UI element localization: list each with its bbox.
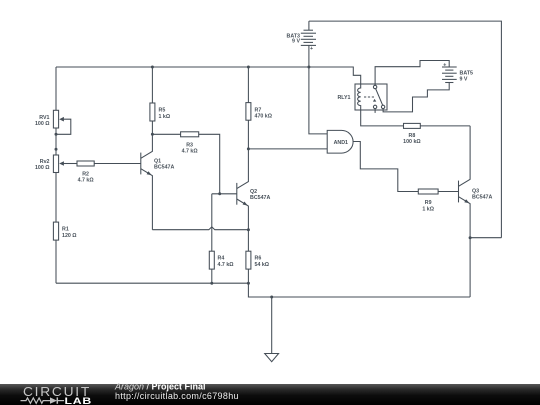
svg-text:RLY1: RLY1 xyxy=(337,95,350,101)
resistor R1 xyxy=(53,222,77,240)
node Q1/Q2 emitter R6 junction xyxy=(247,228,250,231)
wire ground stub xyxy=(271,297,273,354)
wire left column top (rail to RV1) xyxy=(55,67,57,110)
wire Q3 emitter to bottom rail xyxy=(469,238,471,297)
node BAT3 on rail xyxy=(307,66,310,69)
svg-text:1 kΩ: 1 kΩ xyxy=(159,114,171,120)
node Q1 collector / R5 junction xyxy=(151,133,154,136)
svg-text:http://circuitlab.com/c6798hu: http://circuitlab.com/c6798hu xyxy=(115,391,239,401)
svg-text:4.7 kΩ: 4.7 kΩ xyxy=(182,149,199,155)
svg-text:100 Ω: 100 Ω xyxy=(35,121,50,127)
resistor R9 xyxy=(418,189,438,213)
node R7 top on rail xyxy=(247,66,250,69)
wire Q2 collector to AND1 lower input xyxy=(248,148,327,150)
svg-text:1 kΩ: 1 kΩ xyxy=(422,207,434,213)
wire bottom ground rail xyxy=(56,283,470,297)
wire relay top contact to BAT5 plus xyxy=(375,61,449,86)
svg-text:4.7 kΩ: 4.7 kΩ xyxy=(218,262,235,268)
wire BAT3 rail to AND1 upper input xyxy=(309,67,327,134)
resistor R4 xyxy=(209,194,234,283)
wire BAT5 minus to relay NO contact xyxy=(383,83,449,112)
svg-text:+: + xyxy=(310,46,313,52)
svg-text:120 Ω: 120 Ω xyxy=(62,233,77,239)
svg-text:R4: R4 xyxy=(218,256,225,262)
resistor R3 xyxy=(181,132,199,155)
node R5 top on rail xyxy=(151,66,154,69)
resistor R5 xyxy=(150,67,171,134)
node ground stub xyxy=(270,296,273,299)
svg-text:R6: R6 xyxy=(255,256,262,262)
svg-text:9 V: 9 V xyxy=(460,76,468,82)
transistor Q1 xyxy=(141,134,175,229)
svg-text:+: + xyxy=(443,63,446,69)
transistor Q3 xyxy=(459,126,493,238)
svg-text:LAB: LAB xyxy=(65,396,93,405)
wire RV1 to RV2 xyxy=(55,128,57,155)
potentiometer RV2 xyxy=(35,155,77,173)
svg-text:BC547A: BC547A xyxy=(472,195,492,201)
wire R8 to Q3 collector xyxy=(420,125,470,127)
wire R5 junction to R3 xyxy=(152,133,180,135)
transistor Q2 xyxy=(237,120,271,230)
battery BAT5 xyxy=(442,63,473,83)
wire AND1 output to R9 xyxy=(353,142,418,192)
ground xyxy=(265,354,279,362)
svg-text:BC547A: BC547A xyxy=(250,195,270,201)
resistor R2 xyxy=(77,161,94,184)
node Q3 emitter junction xyxy=(469,236,472,239)
potentiometer RV1 xyxy=(35,110,71,134)
node R4 bottom xyxy=(210,282,213,285)
wire Q2 base xyxy=(212,193,237,195)
resistor R8 xyxy=(403,123,421,145)
svg-text:4.7 kΩ: 4.7 kΩ xyxy=(78,178,95,184)
battery BAT3 xyxy=(287,21,316,67)
node R3 / Q2 base junction xyxy=(218,192,221,195)
wire R2 to Q1 base xyxy=(94,163,141,165)
wire R3 to Q2 base node xyxy=(199,134,220,194)
wire R1 to bottom rail xyxy=(55,240,57,283)
svg-text:AND1: AND1 xyxy=(334,140,348,146)
node R6 bottom xyxy=(247,282,250,285)
svg-text:100 Ω: 100 Ω xyxy=(35,165,50,171)
svg-text:100 kΩ: 100 kΩ xyxy=(403,139,421,145)
wire BAT3 top to right column xyxy=(309,21,502,238)
resistor R6 xyxy=(246,230,270,284)
AND gate AND1 xyxy=(327,130,353,153)
svg-text:R5: R5 xyxy=(159,108,166,114)
wire Q3 emitter to right column xyxy=(470,237,501,239)
wire relay coil bottom to R8 xyxy=(361,110,404,126)
logo resistor-diode squiggle xyxy=(21,398,51,403)
svg-text:470 kΩ: 470 kΩ xyxy=(255,114,273,120)
wire RV2 to R1 xyxy=(55,173,57,223)
svg-text:R1: R1 xyxy=(62,227,69,233)
wire Q1 emitter to R6 top (with hop over R4 column) xyxy=(152,227,248,230)
wire R9 to Q3 base xyxy=(438,191,458,193)
svg-text:R9: R9 xyxy=(425,200,432,206)
node AND input tee on Q2 collector xyxy=(247,147,250,150)
node RV1 bottom junction xyxy=(55,133,58,136)
wire top supply rail xyxy=(56,67,361,84)
svg-text:54 kΩ: 54 kΩ xyxy=(255,262,270,268)
svg-text:9 V: 9 V xyxy=(292,38,300,44)
svg-text:BC547A: BC547A xyxy=(154,165,174,171)
resistor R7 xyxy=(246,67,273,120)
footer bar xyxy=(0,384,540,405)
relay RLY1 xyxy=(337,84,387,113)
node wire joint xyxy=(55,148,58,151)
